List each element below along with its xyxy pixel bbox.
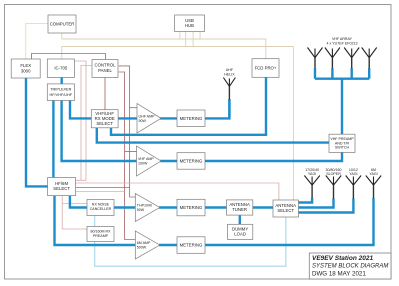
- svg-text:SYSTEM BLOCK DIAGRAM: SYSTEM BLOCK DIAGRAM: [312, 264, 388, 270]
- svg-text:YAGI: YAGI: [308, 172, 316, 176]
- svg-text:PREAMP: PREAMP: [93, 234, 109, 238]
- svg-text:SELECT: SELECT: [277, 208, 294, 213]
- svg-text:RX NOISE: RX NOISE: [92, 203, 110, 207]
- svg-text:HF/VHF/UHF: HF/VHF/UHF: [50, 93, 73, 97]
- svg-text:6M AMP: 6M AMP: [137, 241, 151, 245]
- svg-text:YAGI: YAGI: [369, 172, 377, 176]
- svg-text:DWG 18 MAY 2021: DWG 18 MAY 2021: [312, 271, 366, 278]
- svg-text:3000: 3000: [21, 68, 31, 73]
- svg-text:YAGI: YAGI: [349, 172, 357, 176]
- svg-text:UHF AMP: UHF AMP: [139, 115, 156, 119]
- svg-text:50W: 50W: [137, 208, 145, 212]
- svg-text:AND T/R: AND T/R: [335, 141, 350, 145]
- svg-text:THP1090: THP1090: [137, 204, 152, 208]
- svg-text:METERING: METERING: [180, 116, 203, 121]
- svg-text:TUNER: TUNER: [232, 207, 247, 212]
- svg-text:SELECT: SELECT: [96, 121, 113, 126]
- svg-text:METERING: METERING: [180, 205, 203, 210]
- svg-text:LOAD: LOAD: [234, 232, 246, 237]
- svg-text:TRIPLEXER: TRIPLEXER: [50, 88, 71, 92]
- svg-text:500W: 500W: [137, 246, 147, 250]
- svg-text:HUB: HUB: [185, 23, 194, 28]
- svg-text:SELECT: SELECT: [53, 186, 70, 191]
- svg-text:VE9EV Station 2021: VE9EV Station 2021: [312, 255, 373, 262]
- svg-text:FCD PRO+: FCD PRO+: [255, 66, 277, 71]
- svg-text:HELIX: HELIX: [224, 73, 235, 77]
- svg-text:80/160M RX: 80/160M RX: [91, 230, 112, 234]
- svg-text:CANCELLER: CANCELLER: [90, 207, 112, 211]
- svg-text:IC-705: IC-705: [54, 66, 68, 71]
- svg-text:FLEX: FLEX: [20, 63, 31, 68]
- svg-text:METERING: METERING: [180, 243, 203, 248]
- svg-text:50W: 50W: [139, 119, 147, 123]
- svg-text:VHF ARRAY: VHF ARRAY: [332, 37, 353, 41]
- svg-text:SWITCH: SWITCH: [335, 146, 350, 150]
- svg-text:VHF PREAMP: VHF PREAMP: [330, 137, 354, 141]
- svg-text:SLOPER: SLOPER: [326, 172, 341, 176]
- svg-text:PANEL: PANEL: [98, 68, 112, 73]
- svg-text:VHF AMP: VHF AMP: [138, 157, 154, 161]
- svg-text:100W: 100W: [138, 162, 148, 166]
- svg-text:METERING: METERING: [180, 159, 203, 164]
- svg-text:COMPUTER: COMPUTER: [50, 22, 75, 27]
- svg-text:UHF: UHF: [226, 68, 234, 72]
- svg-text:4 x YU7EF EF0213: 4 x YU7EF EF0213: [327, 42, 358, 46]
